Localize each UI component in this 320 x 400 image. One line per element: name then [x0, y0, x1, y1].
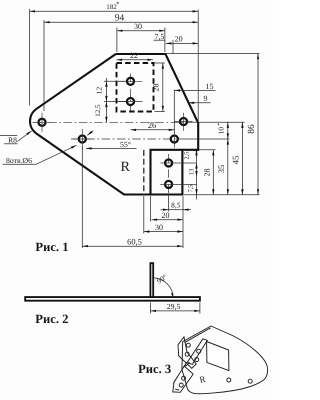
svg-text:2,5: 2,5: [184, 152, 191, 160]
fig3 hole 8: [248, 379, 252, 383]
fig3 hole 4: [195, 358, 199, 362]
svg-text:R8: R8: [8, 136, 17, 145]
hole E: [165, 181, 172, 188]
fig3 hole 1: [186, 343, 190, 347]
extension line 94: [43, 20, 45, 111]
hole F: [127, 78, 134, 85]
svg-text:R: R: [120, 159, 130, 175]
fig3 square hole: [207, 342, 229, 371]
svg-text:30: 30: [155, 223, 163, 232]
fig3 hole 7: [227, 378, 231, 382]
bend line (dashed): [143, 150, 145, 196]
leader arrow to hole 2: [87, 131, 93, 136]
svg-text:12: 12: [95, 87, 104, 95]
part outline Fig1: [30, 54, 198, 195]
dimension 29,5: [150, 310, 200, 312]
fig2 bar: [25, 297, 200, 301]
centerline through hole1 and holeC: [33, 121, 191, 123]
dimension 15: [175, 89, 216, 91]
dimension 94: [44, 21, 198, 23]
hole D: [165, 159, 172, 166]
extension line hole2 column down: [81, 146, 83, 248]
svg-text:20: 20: [162, 211, 170, 220]
svg-text:94: 94: [115, 14, 125, 24]
extension line bend down: [143, 196, 145, 234]
extension line F left: [104, 80, 127, 82]
svg-text:*: *: [217, 123, 223, 126]
fig3 hole 5: [182, 376, 186, 380]
svg-text:28: 28: [152, 84, 161, 92]
fig2 ext right: [199, 303, 201, 314]
hidden flange rectangle (dashed): [117, 63, 154, 112]
svg-text:Рис. 1: Рис. 1: [35, 240, 68, 254]
hole B: [171, 135, 178, 142]
fig3 hole 2: [185, 352, 189, 356]
svg-text:60,5: 60,5: [127, 237, 142, 246]
centerline holes D E: [168, 154, 170, 196]
extension line holeB column up: [173, 90, 175, 134]
svg-text:Рис. 3: Рис. 3: [138, 362, 171, 376]
hole 1: [38, 119, 45, 126]
centerline holes F G: [130, 74, 132, 111]
extension line 30 right: [164, 28, 166, 53]
svg-text:*: *: [116, 1, 119, 8]
dimension 182: [30, 10, 199, 12]
dimension 26: [131, 129, 175, 131]
dimension 28: [212, 150, 214, 195]
extension line right edge down: [182, 196, 184, 248]
svg-text:9: 9: [204, 94, 208, 103]
extension line rect bottom right: [155, 111, 165, 113]
svg-text:26: 26: [148, 121, 156, 130]
svg-text:28: 28: [203, 169, 212, 177]
extension line holeB right: [182, 138, 230, 140]
hole 2: [79, 135, 86, 142]
extension line rect top right: [155, 62, 165, 64]
fig3 hole 6: [179, 383, 183, 387]
svg-text:8,5: 8,5: [171, 201, 181, 210]
svg-text:45: 45: [231, 155, 241, 164]
centerline through hole2 and holeB: [71, 138, 182, 140]
fig3 face A: [178, 337, 196, 368]
dimension 30: [144, 231, 183, 233]
dimension 9: [189, 102, 211, 104]
svg-text:55°: 55°: [120, 140, 131, 149]
dimension 30: [117, 30, 165, 32]
fig2 angle 90 degrees: [154, 278, 173, 298]
dimension 8,5: [169, 209, 183, 211]
svg-text:30: 30: [134, 22, 142, 31]
extension line flange-left down: [150, 196, 152, 222]
label R8: [0, 134, 17, 136]
dimension 60,5: [82, 245, 182, 247]
hole G: [127, 98, 134, 105]
svg-text:7,5: 7,5: [155, 32, 165, 41]
extension line 30 left: [116, 28, 118, 53]
fig2 tab: [150, 263, 153, 297]
dimension 10*: [227, 122, 229, 139]
fig3 hole 3: [197, 349, 201, 353]
dimension 28: [162, 63, 164, 112]
svg-text:13: 13: [188, 168, 195, 175]
extension line right corner: [197, 10, 199, 123]
extension line bottom right: [184, 194, 260, 196]
fig2 ext left: [149, 303, 151, 314]
fig3 plate thickness edge: [185, 328, 211, 343]
fig3 bend strip: [187, 339, 207, 365]
dimension 35: [227, 139, 229, 195]
svg-text:10: 10: [216, 127, 225, 135]
extension line holeDE down: [168, 196, 170, 212]
svg-text:15: 15: [206, 82, 214, 91]
fig3 flange tab: [173, 362, 193, 392]
extension line top of part to 86: [166, 53, 260, 55]
svg-text:8отв.Ø6: 8отв.Ø6: [6, 156, 32, 165]
extension line left 182: [29, 9, 31, 106]
fig3 zigzag fold: [185, 363, 193, 375]
extension line x173: [172, 40, 174, 54]
svg-text:29,5: 29,5: [167, 302, 181, 311]
dimension 22: [117, 59, 154, 61]
hole C: [180, 118, 187, 125]
dimension 86: [257, 54, 259, 195]
extension line G left: [104, 101, 127, 103]
svg-text:7,5: 7,5: [187, 185, 194, 193]
dimension 12 and 12,5: [105, 78, 107, 122]
dimension 20: [152, 219, 184, 221]
dimension 45: [241, 122, 243, 195]
svg-text:86: 86: [247, 124, 257, 134]
extension line step right: [199, 149, 216, 151]
svg-text:12,5: 12,5: [94, 104, 102, 117]
svg-text:20: 20: [175, 34, 183, 43]
svg-text:35: 35: [217, 165, 226, 173]
dimension 7,5 and 20: [166, 42, 198, 44]
svg-text:Рис. 2: Рис. 2: [35, 312, 68, 326]
label 55 degrees: [86, 147, 137, 149]
dimension chain 2,5 13 7,5: [196, 150, 198, 200]
svg-text:22: 22: [130, 51, 138, 60]
extension line holeC right: [191, 121, 245, 123]
fig3 plate outline: [182, 326, 268, 394]
